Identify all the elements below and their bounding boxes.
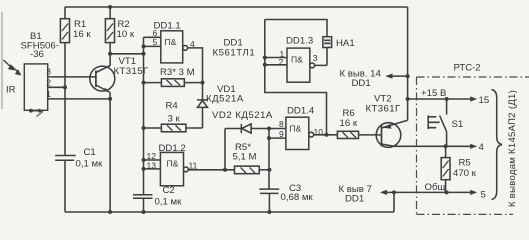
wire DD1.1 pin5 stub — [144, 45, 161, 47]
scan artifact left rule — [1, 12, 3, 109]
IR arrow 2 — [11, 65, 22, 76]
label B1 SFH506-36 — [21, 31, 59, 60]
node pin1 — [263, 56, 267, 60]
label R1 16k — [73, 19, 91, 40]
svg-text:DD1.2: DD1.2 — [159, 143, 186, 154]
label pin 2 — [46, 78, 51, 88]
label pin 13 — [147, 161, 157, 171]
svg-text:5: 5 — [481, 190, 486, 201]
svg-text:DD1.4: DD1.4 — [287, 106, 315, 117]
svg-text:DD1.1: DD1.1 — [154, 21, 181, 32]
svg-text:К выводам К145АП2 (Д1): К выводам К145АП2 (Д1) — [507, 90, 518, 207]
label VT1 KT315G — [114, 56, 149, 77]
node S1 top — [445, 97, 449, 101]
diode VD1 — [197, 100, 208, 128]
svg-text:VD2 КД521А: VD2 КД521А — [212, 110, 273, 121]
IR arrow 1 — [4, 60, 15, 71]
resistor R2 — [105, 7, 114, 66]
wire bottom ground rail — [65, 192, 394, 212]
sensor switch S1 — [428, 99, 446, 146]
wire B1 pin2 to C1 line — [48, 86, 65, 88]
node R5* right — [267, 168, 271, 172]
svg-text:+15 В: +15 В — [421, 88, 446, 99]
node pin9 — [267, 136, 271, 140]
svg-text:К561ТЛ1: К561ТЛ1 — [213, 48, 256, 59]
svg-text:0,1 мк: 0,1 мк — [155, 197, 183, 208]
node pin5 junction — [142, 44, 146, 48]
wire B1 pin3 to VT1 base — [48, 76, 96, 78]
svg-text:КД521А: КД521А — [206, 94, 244, 105]
label pin 9 — [279, 129, 284, 139]
label VD2 KD521A — [212, 110, 273, 121]
node VD2 to output line — [223, 168, 227, 172]
svg-text:8: 8 — [279, 119, 284, 129]
label C1 0,1 mk — [76, 147, 104, 170]
label K vyvodam K145AP2 (D1) rotated — [507, 90, 518, 207]
label DD1.2 — [159, 143, 186, 169]
label pin 1 — [46, 89, 51, 99]
arrow to pin15 — [470, 96, 477, 101]
wire DD1.2 output to R5* — [188, 169, 234, 171]
label IR — [6, 85, 16, 96]
svg-text:DD1.3: DD1.3 — [286, 36, 313, 47]
label PTC-2 — [454, 63, 481, 74]
capacitor C2 — [133, 195, 153, 212]
svg-text:DD1: DD1 — [352, 78, 371, 89]
svg-text:КТ361Г: КТ361Г — [366, 104, 401, 115]
node pin4 line R5 — [444, 144, 448, 148]
diode VD2 — [225, 124, 269, 170]
transistor VT2 — [376, 120, 407, 147]
node R2 top rail junction — [108, 5, 112, 9]
resistor R3 — [144, 79, 203, 87]
svg-text:2: 2 — [46, 78, 51, 88]
node trunk +15 — [406, 97, 410, 101]
wire DD1.2 pin13 stub — [144, 168, 161, 170]
node VT1 collector to gate input — [108, 52, 112, 56]
label R5 470k — [453, 158, 477, 180]
label K vyv 7 DD1 — [339, 184, 372, 205]
svg-text:П&: П& — [290, 124, 302, 134]
wire DD1.4 pin9 stub — [269, 137, 286, 139]
op gate DD1.2 — [160, 152, 188, 185]
wire DD1.3 input loop — [265, 20, 327, 135]
svg-text:5,1 М: 5,1 М — [233, 152, 257, 163]
svg-text:2: 2 — [279, 57, 284, 67]
arrow to pin14 — [386, 74, 393, 79]
label Obshch — [425, 182, 446, 193]
op gate DD1.4 — [286, 117, 314, 149]
label pin 5 — [481, 190, 486, 201]
arrow to pin 7 DD1 — [380, 190, 387, 195]
wire DD1.4 output to R6 — [314, 134, 338, 136]
svg-text:S1: S1 — [452, 119, 464, 130]
label DD1.3 — [286, 36, 313, 65]
op gate DD1.3 — [287, 48, 315, 82]
label R2 10k — [117, 19, 135, 40]
resistor R1 — [60, 7, 69, 156]
resistor R5* 5,1M — [235, 166, 270, 174]
label VT2 KT361G — [366, 94, 401, 115]
node C2 bottom — [142, 210, 146, 214]
svg-text:R5: R5 — [459, 158, 471, 169]
label pin 2 — [279, 57, 284, 67]
svg-text:П&: П& — [167, 159, 179, 169]
wire DD1.3 pin2 stub — [265, 64, 287, 66]
label pin 11 — [189, 161, 198, 171]
op gate DD1.1 — [161, 31, 188, 63]
svg-text:11: 11 — [189, 161, 198, 171]
label pin 10 — [314, 127, 324, 137]
wire node vertical pins8-9 to C3 — [268, 129, 270, 190]
transistor VT1 — [90, 66, 115, 213]
arrow to pin5 — [470, 190, 477, 195]
label DD1.1 — [154, 21, 181, 48]
node pin13 — [142, 167, 146, 171]
label pin 15 — [479, 95, 490, 106]
label HA1 — [336, 38, 355, 49]
svg-text:10 к: 10 к — [117, 29, 135, 40]
svg-text:0,1 мк: 0,1 мк — [76, 159, 104, 170]
label pin 12 — [147, 151, 157, 161]
node VT1 emitter at bottom rail — [108, 210, 112, 214]
svg-text:9: 9 — [279, 129, 284, 139]
svg-text:16 к: 16 к — [340, 118, 358, 129]
node R3 right — [201, 81, 205, 85]
enclosure PTC-2 dash-dot box — [417, 77, 529, 214]
buzzer HA1 — [315, 37, 332, 66]
label +15 V — [421, 88, 446, 99]
label pin 4 — [479, 142, 485, 153]
svg-text:П&: П& — [291, 54, 303, 64]
svg-text:C2: C2 — [163, 185, 175, 196]
svg-text:470 к: 470 к — [453, 168, 477, 179]
wire DD1.1 output down — [188, 48, 203, 100]
label pin 3 — [46, 67, 51, 77]
wire DD1.3 pin1 stub — [265, 57, 287, 59]
label pin 3 of DD1.3 — [313, 53, 318, 63]
node common rail riser — [392, 190, 396, 194]
wire common line to pin 5 — [382, 191, 471, 193]
label S1 — [452, 119, 464, 130]
node pin2 junction — [63, 85, 67, 89]
label pin 1 — [280, 49, 285, 59]
svg-text:5: 5 — [153, 37, 158, 47]
svg-text:3 к: 3 к — [168, 113, 181, 124]
label K vyv. 14 DD1 — [340, 69, 382, 90]
node VD2 right at pin8 — [267, 127, 271, 131]
node DD1.3 inputs to DD1.4 output — [325, 133, 329, 137]
wire top supply rail — [65, 6, 408, 8]
node pin12 — [142, 158, 146, 162]
svg-text:3: 3 — [46, 67, 51, 77]
svg-text:12: 12 — [147, 151, 157, 161]
svg-text:IR: IR — [6, 85, 16, 96]
svg-text:1: 1 — [46, 89, 51, 99]
label C3 0,68 mk — [281, 183, 314, 203]
capacitor C3 — [259, 189, 279, 212]
wire B1 pin1 to emitter line — [48, 98, 110, 100]
label R3* 3 M — [160, 67, 195, 78]
photoreceiver B1 box — [24, 64, 47, 110]
svg-text:РТС-2: РТС-2 — [454, 63, 481, 74]
resistor R6 — [337, 131, 381, 138]
svg-text:R3* 3 М: R3* 3 М — [160, 67, 195, 78]
wire DD1.4 pin8 stub — [269, 128, 286, 130]
label pin 5 — [153, 37, 158, 47]
label DD1 K561TL1 — [213, 38, 256, 59]
svg-text:4: 4 — [479, 142, 485, 153]
node pin2 — [263, 63, 267, 67]
resistor R5 470k — [441, 146, 450, 192]
node input line — [142, 52, 146, 56]
resistor R4 — [144, 124, 203, 132]
svg-text:П&: П& — [165, 37, 177, 47]
svg-text:15: 15 — [479, 95, 490, 106]
wire collector node to input line — [110, 53, 143, 55]
node R5 bottom — [445, 190, 449, 194]
node R3 left — [142, 81, 146, 85]
wire common input vertical line — [143, 37, 145, 195]
node pin1 junction — [108, 97, 112, 101]
B1 internal photodiode arrow — [29, 109, 44, 117]
svg-text:0,68 мк: 0,68 мк — [281, 192, 314, 203]
capacitor C1 — [55, 156, 76, 213]
label R6 16k — [340, 108, 358, 129]
label pin 4 — [190, 39, 195, 49]
label C2 0,1 mk — [155, 185, 183, 208]
wire VT2 collector to pin 4 — [394, 145, 471, 147]
svg-text:16 к: 16 к — [73, 29, 91, 40]
label DD1.4 — [287, 106, 315, 134]
wire DD1.2 pin12 stub — [144, 159, 161, 161]
svg-text:НА1: НА1 — [336, 38, 355, 49]
brace right — [492, 90, 503, 200]
label R4 3k — [166, 100, 181, 124]
wire DD1.1 pin6 stub — [144, 36, 161, 38]
wire +15V line to pin 15 — [408, 98, 471, 100]
node trunk pin14 — [406, 74, 410, 78]
svg-text:13: 13 — [147, 161, 157, 171]
svg-text:DD1: DD1 — [345, 194, 364, 205]
wire trunk right vertical (+U) — [407, 7, 409, 120]
svg-text:3: 3 — [313, 53, 318, 63]
node R4 left — [142, 126, 146, 130]
wire to pin 14 of DD1 — [387, 75, 408, 77]
label pin 8 — [279, 119, 284, 129]
label VD1 KD521A — [206, 84, 244, 105]
svg-text:Общ: Общ — [425, 182, 446, 193]
node C3 bottom — [267, 210, 271, 214]
svg-text:C1: C1 — [84, 147, 96, 158]
arrow to pin4 — [470, 144, 477, 149]
label R5* 5,1 M — [233, 142, 257, 163]
svg-text:R4: R4 — [166, 100, 179, 111]
svg-text:-36: -36 — [30, 49, 44, 60]
label pin 6 — [153, 28, 158, 38]
